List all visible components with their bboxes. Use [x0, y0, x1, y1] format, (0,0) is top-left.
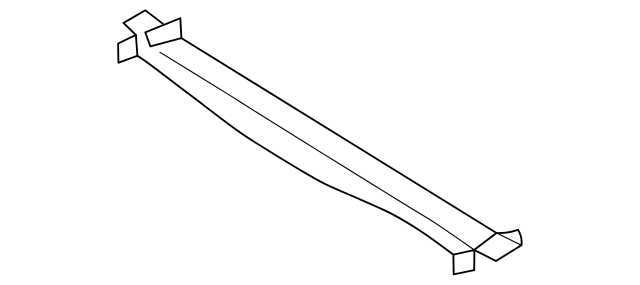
right end bottom flap — [453, 250, 474, 274]
right end diagonal crease — [497, 233, 522, 245]
top tab blade (left end) — [124, 10, 163, 35]
beam center crease — [160, 52, 474, 250]
front corner edge (left end) — [136, 35, 138, 56]
beam bottom edge — [137, 56, 453, 255]
right end face — [474, 233, 521, 261]
beam top edge — [181, 38, 496, 233]
left flap (left end) — [118, 35, 137, 63]
right panel (left end) — [145, 18, 181, 46]
right end top flange — [497, 230, 522, 246]
